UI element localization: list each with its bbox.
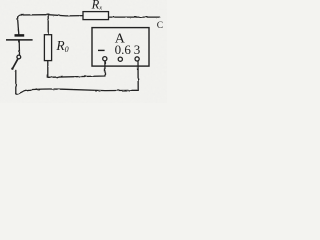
battery cell: short thick plate (top) [15,34,25,37]
switch pivot circle [17,55,21,59]
wire: battery positive up to top-left corner then right to R0 junction [18,15,49,35]
wire: R0 bottom lead down, right along connector, up into ammeter minus terminal [48,61,105,78]
wire: switch lower contact down to bottom-left corner [15,70,17,93]
svg-text:0.6: 0.6 [115,42,132,57]
switch blade tip blob [11,68,13,70]
ammeter box outline [92,28,149,67]
minus sign of negative terminal [98,49,105,51]
battery cell: long thin plate (bottom) [6,39,33,41]
terminal minus (left binding post) [103,57,107,61]
svg-text:3: 3 [134,42,141,57]
resistor Rx box [83,12,109,20]
switch blade (open) [13,59,18,68]
terminal 3 (right binding post) [135,57,139,61]
wire: bottom wire from left corner to right corner [16,89,138,94]
svg-text:C: C [157,21,163,31]
wire: Rx right lead to open end near C [109,16,160,18]
wire: junction to Rx left lead [48,15,83,16]
wire: battery negative down to switch pivot [18,41,20,55]
terminal 0.6 (middle binding post) [118,57,122,61]
resistor R0 box [44,35,51,61]
wire: R0 top lead down from top wire [47,15,49,35]
wire: right vertical up into ammeter terminal 3 [137,61,139,90]
